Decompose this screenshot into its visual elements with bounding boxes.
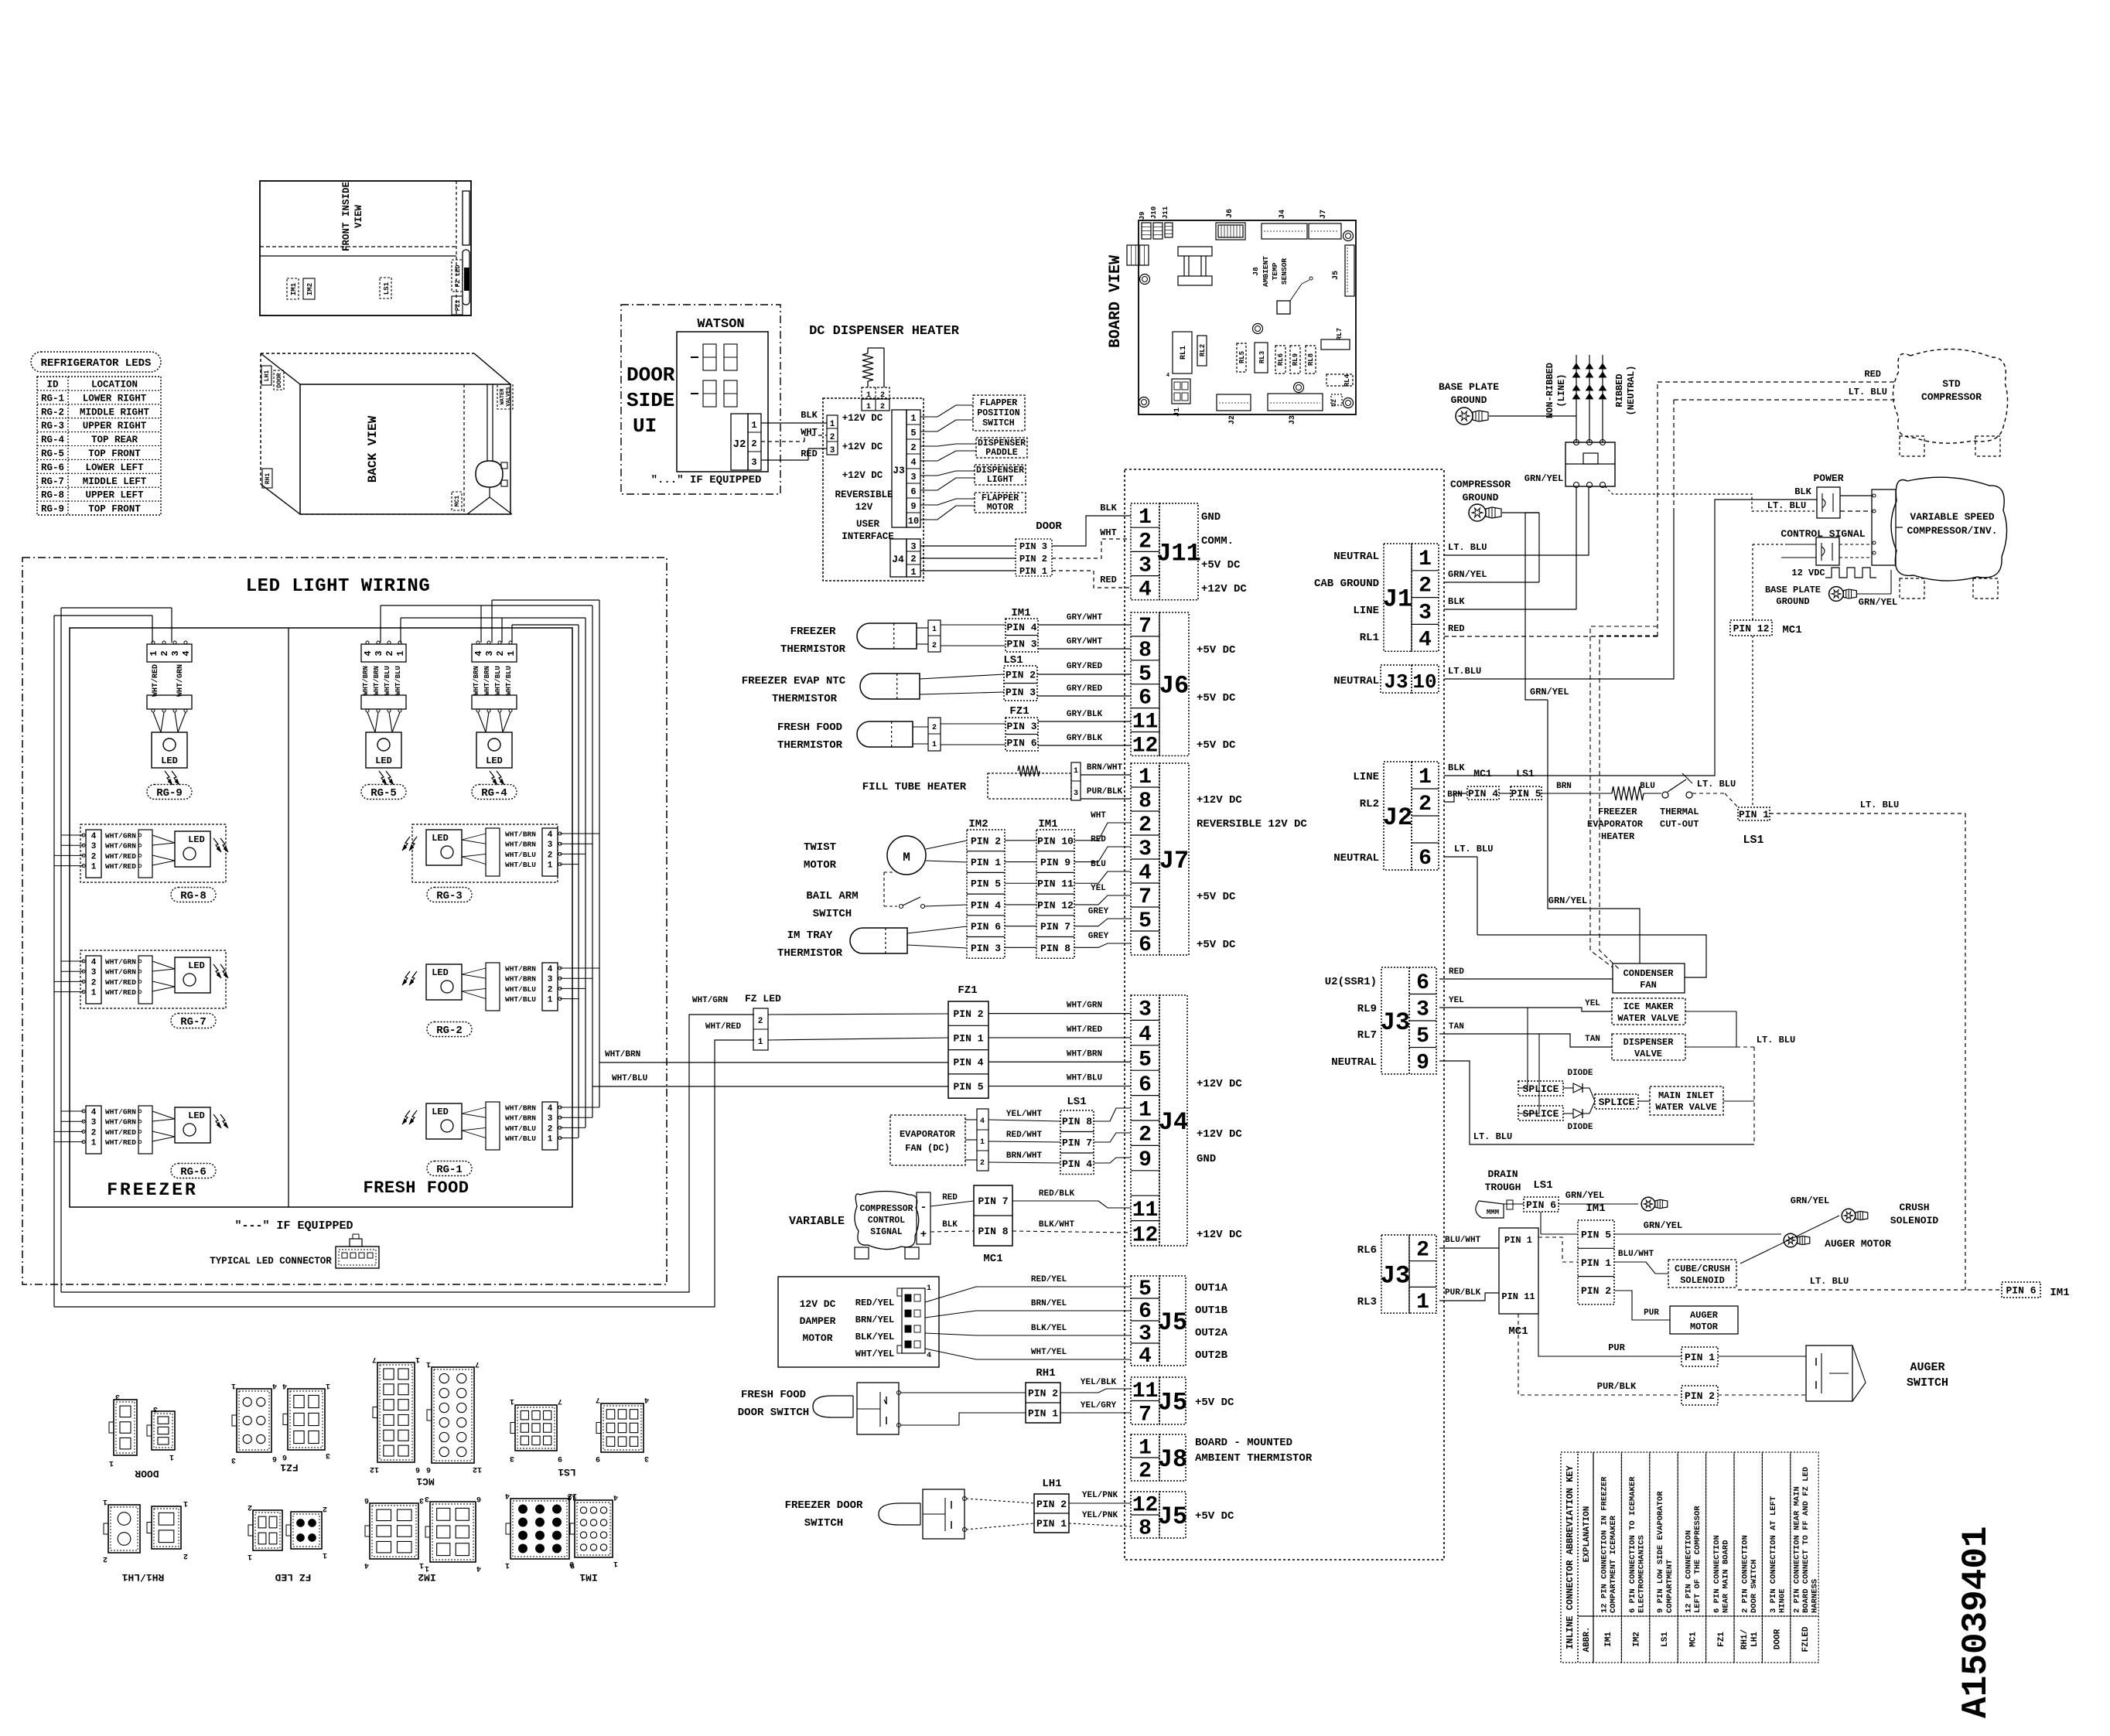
supply wires with arrows	[1572, 355, 1606, 442]
svg-text:J4: J4	[1279, 210, 1287, 219]
svg-text:11: 11	[1132, 1199, 1159, 1223]
svg-text:5: 5	[1139, 1049, 1152, 1073]
svg-text:2: 2	[1416, 1238, 1429, 1262]
board connector J11	[1162, 206, 1173, 237]
watson inner box	[677, 332, 768, 472]
svg-text:GRN/YEL: GRN/YEL	[1859, 597, 1897, 608]
wire J2 to UI BLK	[761, 410, 827, 423]
damper motor connector	[897, 1284, 931, 1360]
led light wiring outer box	[22, 558, 667, 1284]
svg-text:WHT/YEL: WHT/YEL	[1031, 1348, 1067, 1357]
svg-text:1: 1	[169, 1452, 174, 1461]
std compressor blob	[1893, 349, 2008, 456]
svg-text:PIN 5: PIN 5	[953, 1081, 983, 1093]
svg-text:WHT/GRN: WHT/GRN	[1067, 1001, 1102, 1011]
svg-text:+12V DC: +12V DC	[1201, 583, 1247, 595]
LS1 pin box evap thermistor	[920, 654, 1037, 701]
wire J2 to UI WHT	[761, 427, 827, 442]
svg-text:6: 6	[282, 1452, 287, 1461]
svg-text:PUR/BLK: PUR/BLK	[1087, 787, 1123, 796]
svg-text:+5V DC: +5V DC	[1197, 644, 1236, 657]
svg-text:MOTOR: MOTOR	[802, 1332, 832, 1344]
svg-text:IM2: IM2	[306, 283, 314, 295]
svg-text:7: 7	[1139, 885, 1152, 909]
svg-text:OUT1B: OUT1B	[1195, 1305, 1228, 1317]
svg-text:GROUND: GROUND	[1451, 394, 1487, 406]
svg-text:2: 2	[548, 985, 553, 994]
svg-text:3: 3	[91, 842, 97, 851]
svg-text:WHT/BRN: WHT/BRN	[505, 841, 536, 849]
svg-text:VIEW: VIEW	[353, 205, 364, 229]
svg-text:U2: U2	[1331, 399, 1338, 407]
svg-text:3: 3	[1074, 790, 1078, 798]
svg-text:J5: J5	[1158, 1388, 1187, 1417]
svg-text:4: 4	[644, 1395, 649, 1403]
svg-text:FZ LED: FZ LED	[455, 264, 462, 287]
svg-text:1: 1	[1139, 1437, 1152, 1461]
svg-text:BLK: BLK	[942, 1220, 958, 1230]
svg-text:1: 1	[866, 403, 871, 411]
svg-text:3: 3	[830, 446, 835, 455]
svg-text:GND: GND	[1197, 1153, 1216, 1165]
svg-text:6 PIN CONNECTION TO ICEMAKER: 6 PIN CONNECTION TO ICEMAKER	[1628, 1476, 1637, 1613]
svg-text:UPPER LEFT: UPPER LEFT	[85, 490, 144, 501]
svg-text:LINE: LINE	[1353, 771, 1379, 783]
condenser fan box	[1613, 963, 1685, 993]
svg-text:WHT/GRN: WHT/GRN	[176, 664, 185, 697]
freezer evaporator heater coil	[1587, 786, 1644, 842]
svg-text:RG-6: RG-6	[41, 462, 64, 473]
IM1 pin box freezer thermistor	[941, 607, 1038, 652]
wire WHT/BRN to FZ1 pin 4	[599, 1050, 948, 1062]
svg-text:LT. BLU: LT. BLU	[1860, 800, 1899, 810]
board view outline	[1139, 220, 1356, 414]
svg-text:ELECTROMECHANICS: ELECTROMECHANICS	[1637, 1535, 1646, 1613]
svg-text:2: 2	[91, 1128, 97, 1137]
auger motor lug	[1784, 1233, 1891, 1250]
svg-text:AUGER: AUGER	[1910, 1361, 1944, 1374]
svg-text:RL2: RL2	[1360, 798, 1379, 810]
svg-text:PIN 7: PIN 7	[1062, 1137, 1092, 1149]
connector J8	[1131, 1434, 1187, 1484]
svg-text:VARIABLE SPEED: VARIABLE SPEED	[1910, 511, 1994, 523]
svg-text:1: 1	[323, 1550, 327, 1559]
svg-text:6: 6	[1419, 847, 1432, 871]
svg-text:PIN 2: PIN 2	[1019, 554, 1047, 564]
svg-text:LED: LED	[188, 834, 205, 845]
svg-text:5: 5	[910, 428, 916, 438]
svg-text:+5V DC: +5V DC	[1197, 692, 1236, 704]
svg-text:LT. BLU: LT. BLU	[1757, 1035, 1795, 1045]
svg-text:6: 6	[415, 1465, 420, 1473]
svg-text:SIDE: SIDE	[627, 389, 674, 412]
grn/yel wire to condenser fan	[1548, 700, 1640, 963]
svg-text:BACK VIEW: BACK VIEW	[366, 415, 380, 483]
svg-text:MC1: MC1	[416, 1475, 435, 1487]
svg-text:DIODE: DIODE	[1567, 1123, 1593, 1132]
svg-text:9: 9	[569, 1559, 574, 1567]
svg-text:12V: 12V	[855, 502, 873, 513]
evaporator fan box	[890, 1115, 965, 1165]
user interface labels	[835, 413, 893, 542]
dispenser paddle box	[976, 438, 1027, 458]
svg-text:BLU: BLU	[1091, 860, 1106, 869]
svg-text:PIN 2: PIN 2	[1581, 1285, 1611, 1297]
svg-text:FAN: FAN	[1640, 980, 1657, 991]
svg-text:WHT/BRN: WHT/BRN	[505, 1104, 536, 1113]
wire J3 red to condenser fan	[1439, 967, 1613, 979]
refrigerator leds title	[31, 352, 161, 372]
svg-text:4: 4	[548, 1104, 553, 1114]
svg-text:DOOR: DOOR	[276, 373, 283, 387]
svg-text:2: 2	[1419, 575, 1432, 599]
ice maker water valve box	[1612, 998, 1685, 1025]
svg-text:+12V DC: +12V DC	[1197, 794, 1242, 807]
svg-text:J11: J11	[1156, 539, 1201, 568]
svg-text:RG-4: RG-4	[41, 435, 65, 445]
condenser fan return loop	[1477, 935, 1706, 977]
svg-text:WHT/BRN: WHT/BRN	[505, 830, 536, 839]
svg-text:TOP REAR: TOP REAR	[91, 435, 138, 445]
svg-text:3: 3	[548, 841, 553, 850]
svg-text:BLK/YEL: BLK/YEL	[1031, 1324, 1067, 1333]
connector drawing FZ1	[232, 1389, 325, 1473]
svg-text:PIN 1: PIN 1	[1504, 1235, 1532, 1246]
svg-text:RL5: RL5	[1238, 351, 1246, 363]
board connector J1	[1166, 373, 1190, 417]
board power connector	[1127, 245, 1149, 265]
svg-text:WHT/GRN: WHT/GRN	[105, 1118, 136, 1127]
connector drawing MC1	[373, 1363, 474, 1487]
svg-text:-: -	[920, 1202, 927, 1214]
svg-text:3: 3	[1139, 998, 1152, 1022]
svg-text:+5V DC: +5V DC	[1195, 1510, 1234, 1523]
svg-text:GRY/WHT: GRY/WHT	[1067, 613, 1103, 622]
svg-text:WHT/GRN: WHT/GRN	[105, 832, 136, 841]
svg-text:6: 6	[1416, 971, 1429, 995]
base plate ground lug bottom	[1829, 570, 1898, 608]
svg-text:1: 1	[758, 1038, 763, 1047]
svg-text:+12V DC: +12V DC	[1197, 1078, 1242, 1090]
svg-text:BRN/WHT: BRN/WHT	[1087, 763, 1123, 773]
wire J3 tan to dispenser valve	[1439, 1022, 1612, 1047]
svg-text:PIN 6: PIN 6	[1006, 738, 1036, 749]
svg-text:RED/BLK: RED/BLK	[1039, 1189, 1075, 1199]
svg-text:1: 1	[980, 1138, 985, 1147]
FZ1 pin box fresh food thermistor	[941, 705, 1038, 751]
wires twist motor to IM2	[926, 841, 967, 862]
svg-text:GRY/RED: GRY/RED	[1067, 684, 1103, 694]
svg-text:GRY/BLK: GRY/BLK	[1067, 710, 1103, 719]
svg-text:BRN: BRN	[1556, 782, 1572, 791]
main board outline	[1125, 469, 1444, 1560]
svg-text:LT. BLU: LT. BLU	[1810, 1276, 1849, 1287]
svg-text:PIN 2: PIN 2	[1685, 1390, 1715, 1402]
svg-text:J3: J3	[1384, 670, 1408, 694]
refrigerator leds table	[37, 377, 161, 515]
svg-text:RED: RED	[942, 1193, 958, 1202]
svg-text:RG-1: RG-1	[41, 393, 64, 404]
svg-text:3: 3	[548, 975, 553, 984]
svg-text:J9: J9	[1139, 212, 1146, 220]
svg-text:RL9: RL9	[1357, 1003, 1377, 1015]
svg-text:3: 3	[1419, 602, 1432, 626]
svg-text:PIN 6: PIN 6	[2006, 1284, 2036, 1296]
board connector J5	[1332, 245, 1354, 296]
svg-text:VARIABLE: VARIABLE	[789, 1215, 845, 1228]
svg-text:DOOR: DOOR	[1036, 520, 1062, 533]
svg-text:PIN 5: PIN 5	[1511, 788, 1541, 800]
terminal block	[1565, 440, 1615, 488]
svg-text:NON-RIBBED: NON-RIBBED	[1545, 363, 1555, 418]
svg-text:J2: J2	[1383, 803, 1412, 832]
svg-text:PIN 1: PIN 1	[1685, 1352, 1715, 1363]
svg-text:PIN 12: PIN 12	[1037, 899, 1074, 911]
wire im1 pin5 grn/yel to auger lug	[1614, 1220, 1781, 1234]
MC1 pin box compressor	[974, 1185, 1012, 1265]
LS1 pin5 tag heater	[1511, 768, 1542, 800]
svg-text:WHT: WHT	[1091, 811, 1106, 820]
svg-text:COMPARTMENT: COMPARTMENT	[1665, 1560, 1675, 1613]
wire J2 pin2 brn heater	[1444, 782, 1612, 802]
svg-text:WHT/BRN: WHT/BRN	[1067, 1049, 1102, 1059]
svg-text:J8: J8	[1251, 267, 1260, 276]
svg-text:4: 4	[473, 650, 484, 656]
svg-text:DOOR: DOOR	[135, 1468, 159, 1479]
svg-text:4: 4	[980, 1117, 985, 1126]
wire J1 pin1 lt blu	[1444, 488, 1589, 555]
svg-text:PIN 2: PIN 2	[1005, 670, 1036, 681]
svg-text:2: 2	[751, 438, 756, 449]
flapper position switch box	[973, 395, 1025, 431]
svg-text:J4: J4	[1159, 1108, 1188, 1137]
svg-text:REVERSIBLE: REVERSIBLE	[835, 489, 893, 500]
svg-text:GRN/YEL: GRN/YEL	[1791, 1195, 1829, 1206]
svg-text:RL7: RL7	[1336, 328, 1344, 340]
svg-text:J2: J2	[733, 438, 746, 451]
svg-text:PUR/BLK: PUR/BLK	[1445, 1288, 1481, 1298]
im tray thermistor label	[777, 929, 843, 960]
fill tube heater connector	[1071, 762, 1081, 800]
wires door switch to RH1	[900, 1393, 1026, 1425]
board connector J6	[1216, 209, 1245, 240]
svg-text:MAIN INLET: MAIN INLET	[1658, 1090, 1714, 1101]
twist motor label	[804, 841, 837, 871]
svg-text:4: 4	[476, 1564, 481, 1572]
wire door pin3 BLK to J11	[1052, 503, 1131, 546]
svg-text:9: 9	[596, 1454, 600, 1462]
J3 rl6 rl3 labels	[1357, 1244, 1377, 1308]
svg-text:HEATER: HEATER	[1601, 831, 1635, 842]
svg-text:J3: J3	[1381, 1008, 1410, 1037]
back view MC1 tag	[452, 492, 462, 510]
wires IM2 to IM1	[1005, 841, 1036, 948]
svg-text:"---" IF EQUIPPED: "---" IF EQUIPPED	[234, 1219, 353, 1233]
svg-text:RG-7: RG-7	[41, 476, 64, 487]
auger switch pin1	[1538, 1314, 1718, 1366]
svg-text:WHT/BLU: WHT/BLU	[1067, 1074, 1102, 1083]
svg-text:RG-1: RG-1	[436, 1164, 463, 1176]
svg-text:WHT/BLU: WHT/BLU	[384, 666, 391, 695]
svg-text:RED: RED	[1449, 967, 1464, 977]
svg-text:2: 2	[980, 1159, 985, 1168]
svg-text:RH1: RH1	[1036, 1367, 1055, 1380]
dispenser light box	[975, 465, 1026, 485]
svg-text:THERMISTOR: THERMISTOR	[780, 643, 846, 656]
svg-text:CONTROL: CONTROL	[868, 1216, 905, 1226]
svg-text:WHT/RED: WHT/RED	[151, 664, 160, 697]
svg-text:CRUSH: CRUSH	[1899, 1202, 1929, 1213]
wires power relay to junction	[1840, 496, 1872, 511]
svg-text:WHT/GRN: WHT/GRN	[105, 968, 136, 977]
svg-text:LH1: LH1	[264, 370, 271, 382]
base plate ground lug top	[1456, 408, 1576, 425]
svg-text:PIN 4: PIN 4	[971, 899, 1001, 911]
svg-text:A15039401: A15039401	[1956, 1526, 1996, 1718]
svg-text:3: 3	[910, 541, 916, 552]
svg-text:FZ1: FZ1	[958, 984, 977, 997]
svg-text:NEUTRAL: NEUTRAL	[1331, 1056, 1377, 1069]
svg-text:WATER: WATER	[500, 388, 506, 405]
svg-text:LOWER RIGHT: LOWER RIGHT	[83, 393, 147, 404]
svg-text:PIN 8: PIN 8	[1062, 1116, 1092, 1127]
MC1 pin column right	[1499, 1228, 1538, 1338]
svg-text:BASE PLATE: BASE PLATE	[1765, 585, 1821, 595]
svg-text:2: 2	[91, 852, 97, 861]
svg-text:3: 3	[153, 1404, 158, 1413]
base plate ground label bottom	[1765, 585, 1821, 607]
svg-text:7: 7	[372, 1355, 377, 1363]
svg-text:12: 12	[567, 1492, 576, 1501]
front inside view IM1 tag	[287, 278, 299, 299]
freezer thermistor connector	[917, 620, 941, 652]
svg-text:BOARD CONNECT TO FF AND FZ LED: BOARD CONNECT TO FF AND FZ LED	[1801, 1467, 1811, 1613]
svg-text:12: 12	[1132, 734, 1159, 758]
svg-text:WHT/RED: WHT/RED	[105, 1128, 136, 1137]
MC1 pin4 tag heater	[1467, 768, 1499, 800]
svg-text:1: 1	[510, 1397, 514, 1405]
bail arm switch symbol	[884, 872, 967, 909]
svg-text:+5V DC: +5V DC	[1197, 939, 1236, 951]
svg-text:3: 3	[1139, 837, 1152, 861]
svg-text:YEL/GRY: YEL/GRY	[1081, 1401, 1117, 1410]
svg-text:LED: LED	[432, 967, 449, 978]
svg-text:3: 3	[548, 1114, 553, 1124]
svg-text:LT. BLU: LT. BLU	[1448, 542, 1487, 553]
svg-text:THERMISTOR: THERMISTOR	[772, 693, 838, 705]
svg-text:IM1: IM1	[1604, 1632, 1613, 1647]
svg-text:MC1: MC1	[1688, 1632, 1698, 1647]
svg-text:INTERFACE: INTERFACE	[842, 531, 894, 542]
svg-text:1: 1	[91, 863, 97, 872]
svg-text:6: 6	[426, 1465, 431, 1473]
svg-text:RL2: RL2	[1199, 344, 1207, 356]
svg-text:RG-8: RG-8	[180, 890, 207, 902]
twist motor symbol	[887, 836, 926, 875]
freezer thermistor label	[780, 626, 846, 656]
svg-text:WHT/RED: WHT/RED	[1067, 1025, 1103, 1035]
svg-text:PIN 1: PIN 1	[1581, 1257, 1611, 1269]
svg-text:FZ LED: FZ LED	[745, 993, 781, 1004]
led RG-4 unit	[472, 641, 517, 800]
svg-text:WHT/BLU: WHT/BLU	[505, 1134, 536, 1143]
board relay RL9	[1290, 346, 1300, 373]
svg-text:SWITCH: SWITCH	[813, 908, 852, 920]
svg-text:BOARD VIEW: BOARD VIEW	[1107, 255, 1125, 348]
led wiring left trunk branches	[54, 835, 84, 1142]
svg-text:WHT/BLU: WHT/BLU	[505, 985, 536, 994]
led RG-3 unit	[402, 824, 562, 902]
svg-text:8: 8	[1139, 639, 1152, 663]
svg-text:WHT/RED: WHT/RED	[105, 862, 136, 871]
svg-text:DAMPER: DAMPER	[800, 1315, 836, 1327]
board mounting holes	[1139, 231, 1354, 408]
connector J1	[1383, 544, 1439, 652]
svg-text:MOTOR: MOTOR	[1690, 1322, 1719, 1332]
wire J1 pin2 grn/yel	[1444, 513, 1539, 582]
wires fill tube heater to J7	[1081, 763, 1131, 799]
svg-text:PIN 7: PIN 7	[978, 1195, 1008, 1207]
RH1 pin box	[1026, 1367, 1060, 1423]
svg-text:12 PIN CONNECTION IN FREEZER: 12 PIN CONNECTION IN FREEZER	[1600, 1476, 1609, 1613]
svg-text:2 PIN CONNECTION: 2 PIN CONNECTION	[1740, 1535, 1750, 1613]
svg-text:6: 6	[1139, 933, 1152, 957]
svg-text:4: 4	[548, 965, 553, 974]
svg-text:BLK/YEL: BLK/YEL	[855, 1332, 894, 1342]
svg-text:10: 10	[1412, 670, 1436, 694]
svg-text:WHT/RED: WHT/RED	[105, 988, 136, 997]
svg-text:2: 2	[758, 1017, 763, 1026]
svg-text:VALVE: VALVE	[1634, 1049, 1662, 1059]
svg-text:FAN (DC): FAN (DC)	[905, 1143, 950, 1154]
svg-text:WHT/BLU: WHT/BLU	[505, 666, 513, 695]
svg-text:1: 1	[910, 413, 916, 424]
svg-text:RED: RED	[1448, 623, 1465, 634]
svg-text:+12V DC: +12V DC	[842, 413, 883, 424]
led RG-1 unit	[402, 1102, 562, 1176]
svg-text:8: 8	[1139, 1517, 1152, 1541]
svg-text:UPPER RIGHT: UPPER RIGHT	[83, 421, 147, 431]
svg-text:IM TRAY: IM TRAY	[787, 929, 833, 942]
svg-text:1: 1	[183, 1499, 188, 1507]
svg-text:LS1: LS1	[1661, 1632, 1670, 1647]
back view outline	[261, 353, 510, 514]
svg-text:DOOR: DOOR	[1774, 1629, 1783, 1649]
svg-text:3: 3	[326, 1451, 330, 1459]
splice box 3	[1582, 1088, 1638, 1114]
svg-text:1: 1	[1416, 1291, 1429, 1315]
fz led connector	[753, 1008, 768, 1050]
svg-text:RL8: RL8	[1307, 353, 1315, 366]
board relay RL7	[1321, 328, 1350, 350]
svg-text:FLAPPER: FLAPPER	[980, 398, 1017, 408]
drain trough label	[1485, 1168, 1521, 1193]
front inside view outline	[260, 181, 471, 315]
svg-text:SWITCH: SWITCH	[982, 418, 1015, 428]
control signal relay	[1816, 537, 1839, 565]
svg-text:PUR/BLK: PUR/BLK	[1597, 1381, 1637, 1392]
svg-text:BLU/WHT: BLU/WHT	[1445, 1236, 1481, 1245]
wires J3 to flapper boxes	[920, 405, 976, 520]
svg-text:CAB GROUND: CAB GROUND	[1314, 578, 1379, 590]
svg-text:REVERSIBLE 12V DC: REVERSIBLE 12V DC	[1197, 818, 1307, 830]
svg-text:+12V DC: +12V DC	[1197, 1229, 1242, 1241]
wires damper motor to J5	[925, 1275, 1131, 1359]
svg-text:IM1: IM1	[1586, 1202, 1605, 1215]
svg-text:2: 2	[1139, 1460, 1152, 1484]
svg-text:2: 2	[548, 1124, 553, 1134]
svg-text:J3: J3	[1289, 415, 1297, 425]
